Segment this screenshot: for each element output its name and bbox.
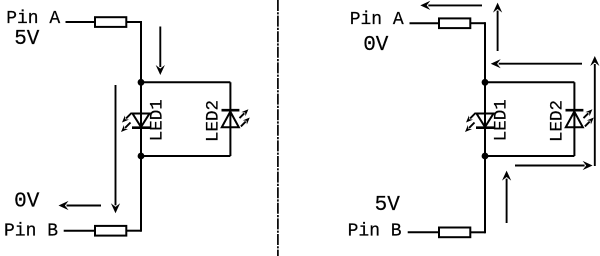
LED2 light emission arrows [584,109,594,126]
LED2 diode symbol [222,110,240,127]
wire Pin B to resistor [408,231,439,233]
svg-text:LED2: LED2 [203,100,223,142]
divider dash-dot line [277,0,279,256]
LED2 light emission arrows [240,109,250,126]
current arrow right (below box bottom) [515,161,593,170]
svg-text:Pin B: Pin B [4,222,58,242]
current arrow long down (beside LED1 branch) [111,85,120,213]
svg-text:5V: 5V [14,28,40,51]
wire corner down to top node [140,21,142,82]
wire LED1 branch [484,82,486,156]
svg-text:Pin A: Pin A [350,10,404,30]
resistor (bottom) [439,228,470,238]
svg-text:0V: 0V [363,34,389,57]
svg-text:LED1: LED1 [492,99,512,141]
node junction top [138,79,145,86]
wire corner up to bottom node [140,156,142,232]
svg-text:LED2: LED2 [547,100,567,142]
current arrow left (above box top) [491,59,582,68]
resistor (bottom) [95,226,126,236]
wire LED2 branch (box right) [573,82,575,156]
wire box top [141,81,230,83]
wire corner down to top node [484,22,486,82]
node junction bottom [482,153,489,160]
svg-text:5V: 5V [375,194,401,217]
wire Pin A to resistor [66,21,96,23]
resistor (top) [439,18,470,28]
wire Pin B to resistor [64,230,95,232]
svg-text:Pin A: Pin A [6,9,60,29]
svg-text:LED1: LED1 [148,99,168,141]
current arrow down (into top node) [156,27,165,76]
wire box bottom [485,155,574,157]
LED2 diode symbol [566,110,584,127]
wire LED1 branch [140,82,142,156]
wire corner up to bottom node [484,156,486,233]
wire Pin A to resistor [410,22,440,24]
current arrow up (beside LED2 branch) [590,56,599,166]
LED1 light emission arrows [121,113,132,132]
wire resistor to corner [126,21,141,23]
node junction bottom [138,153,145,160]
current arrow up (beside bottom riser) [502,171,511,223]
wire resistor to corner [470,22,485,24]
wire resistor to corner [470,231,485,233]
LED1 light emission arrows [465,113,476,132]
current arrow left (top, toward Pin A) [420,1,482,10]
current arrow up (beside top corner) [493,3,502,51]
svg-text:Pin B: Pin B [348,222,402,242]
current arrow left (toward 0V / Pin B) [59,201,102,210]
wire box bottom [141,155,230,157]
resistor (top) [95,17,126,27]
svg-text:0V: 0V [14,190,40,213]
node junction top [482,79,489,86]
wire LED2 branch (box right) [229,82,231,156]
wire box top [485,81,574,83]
wire resistor to corner [126,230,141,232]
LED1 diode symbol [132,114,150,128]
LED1 diode symbol [476,114,494,128]
